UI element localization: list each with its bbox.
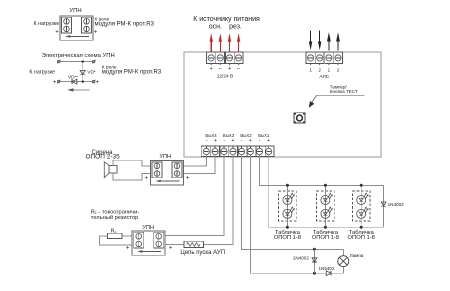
svg-text:ОПОП 1-8: ОПОП 1-8 (274, 235, 301, 241)
svg-text:тельный резистор: тельный резистор (91, 214, 138, 221)
svg-text:1: 1 (328, 68, 331, 73)
svg-text:+: + (144, 176, 148, 182)
svg-text:-: - (241, 138, 243, 144)
svg-text:+: + (169, 246, 173, 252)
svg-text:+: + (214, 138, 217, 144)
svg-text:Электрическая схема УПН: Электрическая схема УПН (42, 53, 115, 59)
svg-text:К нагрузке: К нагрузке (29, 70, 55, 76)
svg-text:ОПОП 1-8: ОПОП 1-8 (312, 235, 339, 241)
svg-text:1: 1 (309, 68, 312, 73)
svg-text:2: 2 (337, 68, 340, 73)
svg-text:+: + (126, 246, 130, 252)
svg-text:+: + (228, 66, 231, 72)
svg-text:VD*: VD* (87, 69, 95, 74)
svg-text:Лампа: Лампа (350, 253, 364, 258)
svg-text:УПН: УПН (142, 225, 154, 231)
svg-text:рез.: рез. (229, 24, 242, 31)
svg-text:+: + (210, 66, 213, 72)
svg-text:К источнику питания: К источнику питания (193, 16, 260, 23)
svg-text:+: + (55, 30, 59, 36)
svg-text:+: + (94, 30, 98, 36)
svg-text:+: + (232, 138, 235, 144)
svg-text:-: - (206, 138, 208, 144)
svg-text:+: + (96, 80, 100, 86)
svg-text:-: - (259, 138, 261, 144)
svg-text:–: – (237, 66, 241, 72)
svg-text:-: - (223, 138, 225, 144)
svg-text:–: – (219, 66, 223, 72)
svg-text:+: + (53, 80, 57, 86)
svg-text:1N4002: 1N4002 (388, 202, 405, 207)
svg-text:Кнопка ТЕСТ: Кнопка ТЕСТ (330, 89, 358, 94)
svg-text:модуля РМ-К прот.R3: модуля РМ-К прот.R3 (95, 22, 155, 28)
svg-text:модуля РМ-К прот.R3: модуля РМ-К прот.R3 (102, 69, 162, 75)
svg-text:Цепь пуска АУП: Цепь пуска АУП (180, 250, 225, 256)
svg-text:осн.: осн. (209, 24, 222, 31)
svg-text:2: 2 (318, 68, 321, 73)
svg-text:+: + (186, 176, 190, 182)
svg-text:ОПОП 2-35: ОПОП 2-35 (85, 154, 120, 161)
svg-text:УПН: УПН (159, 154, 171, 160)
svg-text:АЛС: АЛС (319, 74, 329, 80)
svg-text:ОПОП 1-8: ОПОП 1-8 (348, 235, 375, 241)
svg-text:VD**: VD** (68, 75, 78, 80)
svg-text:1N5402: 1N5402 (318, 266, 335, 271)
svg-text:1N4002: 1N4002 (293, 256, 310, 261)
svg-text:+: + (249, 138, 252, 144)
svg-text:12/24 В: 12/24 В (217, 74, 234, 80)
svg-text:К нагрузке: К нагрузке (34, 21, 60, 27)
svg-text:УПН: УПН (69, 8, 81, 14)
svg-text:+: + (267, 138, 270, 144)
